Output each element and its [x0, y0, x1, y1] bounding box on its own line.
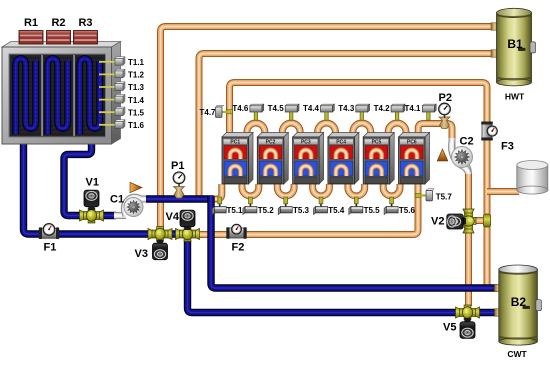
svg-text:CWT: CWT	[507, 349, 527, 359]
svg-text:P2: P2	[439, 92, 452, 104]
svg-text:F3: F3	[501, 141, 514, 153]
svg-text:HWT: HWT	[505, 92, 525, 102]
svg-text:PC6: PC6	[407, 140, 417, 146]
svg-text:PC1: PC1	[230, 140, 240, 146]
svg-text:R3: R3	[78, 17, 92, 29]
svg-text:V1: V1	[86, 177, 99, 189]
svg-text:T5.7: T5.7	[436, 193, 453, 202]
svg-text:F1: F1	[44, 242, 57, 254]
svg-text:C1: C1	[110, 194, 124, 206]
svg-text:C2: C2	[460, 136, 474, 148]
svg-text:T5.5: T5.5	[364, 206, 381, 215]
svg-text:F2: F2	[232, 242, 245, 254]
svg-text:T1.6: T1.6	[128, 121, 145, 130]
svg-text:T1.4: T1.4	[128, 96, 145, 105]
svg-text:R1: R1	[24, 17, 38, 29]
svg-text:T5.6: T5.6	[399, 206, 416, 215]
svg-text:PC2: PC2	[266, 140, 276, 146]
svg-text:T5.3: T5.3	[293, 206, 310, 215]
svg-text:V5: V5	[443, 322, 456, 334]
svg-text:T1.5: T1.5	[128, 108, 145, 117]
svg-text:R2: R2	[51, 17, 65, 29]
svg-text:T1.1: T1.1	[128, 58, 145, 67]
svg-text:V2: V2	[431, 216, 444, 228]
svg-text:T4.5: T4.5	[268, 104, 285, 113]
svg-text:PC4: PC4	[336, 140, 346, 146]
svg-text:T1.2: T1.2	[128, 71, 145, 80]
svg-text:T1.3: T1.3	[128, 83, 145, 92]
svg-text:T4.6: T4.6	[232, 104, 249, 113]
svg-text:T4.7: T4.7	[199, 108, 216, 117]
svg-text:PC5: PC5	[372, 140, 382, 146]
svg-text:T4.2: T4.2	[374, 104, 391, 113]
svg-text:T5.1: T5.1	[227, 206, 244, 215]
svg-text:V4: V4	[166, 211, 180, 223]
svg-text:PC3: PC3	[301, 140, 311, 146]
svg-text:T4.3: T4.3	[338, 104, 355, 113]
svg-text:T4.1: T4.1	[404, 104, 421, 113]
svg-text:T5.4: T5.4	[328, 206, 345, 215]
svg-text:P1: P1	[171, 160, 184, 172]
svg-text:V3: V3	[135, 248, 148, 260]
svg-text:T5.2: T5.2	[258, 206, 275, 215]
svg-text:T4.4: T4.4	[303, 104, 320, 113]
